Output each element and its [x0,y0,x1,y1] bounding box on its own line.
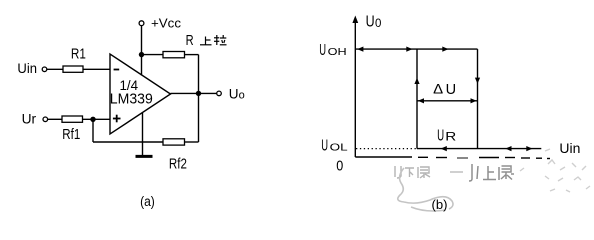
resistor R1 [63,66,83,72]
svg-text:U: U [229,87,239,102]
watermark speckles [520,149,590,192]
x-axis Uin [355,157,550,159]
wire Vcc node to pull-up [142,54,164,56]
junction node output [196,91,201,96]
junction node Vcc pull-up [139,52,144,57]
wire right vertical output net [198,55,200,142]
arrow right on UOH line inside loop [442,47,448,52]
hysteresis loop right vertical [477,49,479,149]
wire Uin to R1 [47,68,63,70]
junction node noninverting input [90,117,95,122]
svg-text:Ur: Ur [22,111,37,127]
label Uo [229,87,245,102]
svg-text:Rf2: Rf2 [169,157,187,173]
wire Rf2 to right vertical [185,141,199,143]
svg-text:0: 0 [336,158,343,175]
delta U dimension line [417,98,478,103]
wire ground vertical [142,113,144,156]
arrow left on UOL line right segment [505,146,511,151]
wire feedback vertical [92,119,94,142]
input terminal Ur [43,117,48,122]
y-axis Uo [352,16,358,158]
svg-text:+Vcc: +Vcc [151,15,182,30]
svg-text:Uin: Uin [559,140,580,156]
svg-text:R: R [445,129,456,143]
Vcc terminal [139,21,144,26]
resistor R pull-up [163,52,185,58]
wire feedback bottom [93,141,163,143]
ground [136,155,153,158]
resistor Rf2 [163,139,185,145]
svg-text:U: U [321,137,328,154]
svg-text:Δ: Δ [433,81,443,97]
watermark swirl [398,168,453,211]
svg-text:R1: R1 [71,45,86,62]
svg-text:Uin: Uin [17,60,37,76]
label UOL [321,137,348,154]
arrow up on left vertical [414,78,419,84]
label delta U [433,81,456,98]
resistor Rf1 [62,116,83,122]
watermark text U upper limit [469,164,514,181]
svg-text:o: o [239,90,245,102]
wire Ur to Rf1 [48,118,62,120]
svg-text:0: 0 [375,18,381,30]
svg-text:(b): (b) [432,197,448,212]
wire pull-up to right vertical [185,54,199,56]
input terminal Uin [42,67,47,72]
svg-text:Rf1: Rf1 [62,127,80,143]
svg-text:OL: OL [330,142,349,153]
svg-text:(a): (a) [140,194,155,209]
svg-text:U: U [437,127,444,144]
label UOH [319,42,346,59]
label R pull-up [186,33,227,49]
arrow down on right vertical [475,78,480,84]
arrow right on UOH line before threshold [406,47,412,52]
wire Vcc vertical [141,26,143,76]
wire op-amp output [171,92,217,94]
svg-text:LM339: LM339 [110,90,153,107]
wire R1 to op-amp inverting input [83,68,110,70]
dotted UOL level line [356,148,416,150]
watermark text U lower limit [395,166,463,178]
UOH level line [355,48,477,50]
svg-text:R: R [186,33,194,49]
label UR [437,127,457,144]
hysteresis loop left vertical [416,49,418,149]
output terminal Uo [217,91,222,96]
svg-text:U: U [366,14,375,31]
UOL level solid line [417,148,541,150]
arrow right on UOL line right segment [526,146,532,151]
svg-text:U: U [319,42,326,59]
arrow left on UOL line inside loop [441,146,447,151]
arrow left on UOH line [357,47,363,52]
wire Rf1 to node [83,118,111,120]
svg-text:U: U [446,81,457,98]
op-amp U1 1/4 LM339 [110,54,171,134]
svg-text:OH: OH [328,47,347,58]
label Uo axis [366,14,382,31]
